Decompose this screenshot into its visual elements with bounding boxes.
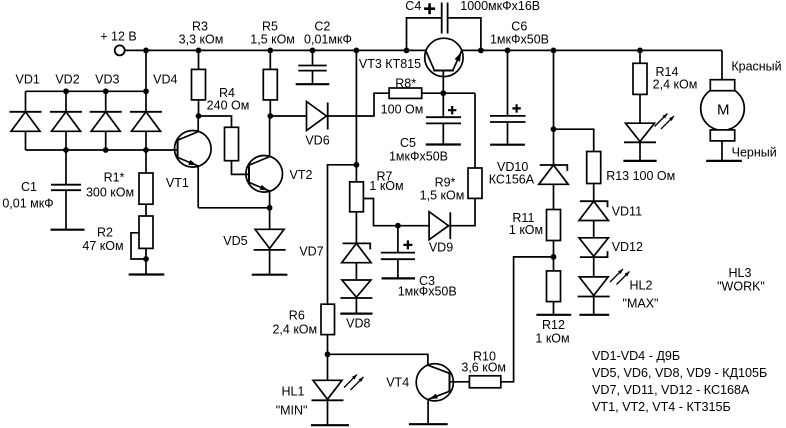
node emitters bbox=[267, 205, 273, 211]
resistor R10 bbox=[469, 376, 500, 388]
svg-text:100 Ом: 100 Ом bbox=[381, 103, 424, 117]
svg-text:VD4: VD4 bbox=[153, 72, 177, 86]
label VD9 bbox=[429, 241, 453, 255]
svg-text:VD5: VD5 bbox=[223, 234, 247, 248]
resistor R9 bbox=[450, 168, 482, 226]
svg-text:0,01мкФ: 0,01мкФ bbox=[304, 33, 352, 47]
resistor R13 bbox=[587, 152, 601, 202]
label VT1 bbox=[166, 176, 189, 190]
label R4 bbox=[207, 86, 250, 112]
svg-text:1мкФх50В: 1мкФх50В bbox=[398, 285, 457, 299]
svg-text:VD7: VD7 bbox=[299, 245, 323, 259]
svg-text:HL2: HL2 bbox=[630, 279, 653, 293]
svg-text:0,01 мкФ: 0,01 мкФ bbox=[2, 197, 53, 211]
label VD10 bbox=[489, 160, 535, 187]
svg-text:2,4 кОм: 2,4 кОм bbox=[272, 322, 317, 336]
svg-text:R3: R3 bbox=[192, 20, 208, 34]
svg-text:47 кОм: 47 кОм bbox=[82, 239, 123, 253]
svg-text:КС156А: КС156А bbox=[489, 173, 535, 187]
led HL2 bbox=[578, 269, 630, 315]
node R7 top bbox=[354, 162, 360, 168]
diode VD8 bbox=[340, 280, 372, 298]
label VD7 bbox=[299, 245, 323, 259]
wire diode top bus bbox=[26, 90, 147, 92]
resistor R11 bbox=[547, 184, 561, 257]
svg-text:VD2: VD2 bbox=[55, 72, 79, 86]
resistor R1 bbox=[139, 150, 153, 204]
wire VT1-VT2 emitters bbox=[198, 207, 269, 209]
svg-text:VD9: VD9 bbox=[429, 241, 453, 255]
svg-text:VT4: VT4 bbox=[386, 376, 409, 390]
label VD6 bbox=[305, 134, 329, 148]
svg-text:1 кОм: 1 кОм bbox=[535, 332, 569, 346]
diode VD4 bbox=[130, 91, 162, 150]
svg-text:"WORK": "WORK" bbox=[717, 280, 765, 294]
svg-text:VD8: VD8 bbox=[346, 317, 370, 331]
zener VD7 bbox=[342, 243, 371, 262]
diode VD2 bbox=[50, 91, 82, 150]
zener VD11 bbox=[579, 201, 608, 220]
svg-text:VD1: VD1 bbox=[16, 72, 40, 86]
label VD12 bbox=[612, 240, 643, 254]
label VT2 bbox=[290, 168, 313, 182]
transistor VT1 bbox=[175, 116, 212, 208]
resistor R8 bbox=[389, 88, 422, 98]
svg-text:1мкФх50В: 1мкФх50В bbox=[389, 150, 448, 164]
label R3 bbox=[179, 20, 224, 47]
label VD8 bbox=[346, 317, 370, 331]
label VT4 bbox=[386, 376, 409, 390]
svg-text:R9*: R9* bbox=[435, 176, 456, 190]
ground C2 bbox=[296, 83, 330, 85]
svg-text:1 кОм: 1 кОм bbox=[509, 223, 543, 237]
label R9 bbox=[420, 176, 465, 203]
svg-text:C6: C6 bbox=[511, 20, 527, 34]
diode VD5 bbox=[254, 208, 286, 275]
svg-text:VD7, VD11, VD12 - КС168А: VD7, VD11, VD12 - КС168А bbox=[592, 383, 750, 397]
resistor R3 bbox=[192, 50, 206, 116]
svg-text:1,5 кОм: 1,5 кОм bbox=[420, 189, 465, 203]
svg-text:+ 12 В: + 12 В bbox=[100, 30, 137, 44]
wire +12V rail right bbox=[462, 49, 722, 51]
svg-text:R12: R12 bbox=[542, 318, 565, 332]
ground R12 bbox=[536, 314, 571, 316]
svg-text:VD3: VD3 bbox=[95, 72, 119, 86]
label R12 bbox=[535, 318, 569, 346]
ground C3 bbox=[382, 277, 415, 279]
svg-text:R1*: R1* bbox=[104, 171, 125, 185]
wire VD4 drop from rail bbox=[145, 50, 147, 91]
node rail junctions bbox=[143, 48, 643, 54]
svg-text:VD6: VD6 bbox=[305, 134, 329, 148]
svg-text:C1: C1 bbox=[21, 180, 37, 194]
label R14 bbox=[653, 65, 698, 92]
resistor R2 bbox=[131, 216, 153, 275]
node top bus junctions bbox=[63, 88, 149, 94]
node C3 top bbox=[395, 223, 401, 229]
svg-text:R5: R5 bbox=[262, 20, 278, 34]
diode VD9 bbox=[429, 212, 450, 240]
wire rail-motor bbox=[721, 50, 723, 79]
capacitor C6 bbox=[490, 50, 526, 144]
transistor VT4 bbox=[416, 364, 453, 425]
label notes bbox=[592, 349, 767, 414]
wire R8-base bbox=[422, 92, 475, 94]
label C4 bbox=[405, 0, 540, 14]
svg-text:Черный: Черный bbox=[732, 146, 777, 160]
label R13 bbox=[606, 169, 675, 183]
svg-text:VD5, VD6, VD8, VD9 - КД105Б: VD5, VD6, VD8, VD9 - КД105Б bbox=[592, 366, 767, 380]
label HL2 bbox=[623, 279, 659, 311]
svg-text:VD1-VD4 - Д9Б: VD1-VD4 - Д9Б bbox=[592, 349, 680, 363]
ground HL2 bbox=[579, 314, 609, 316]
svg-text:VT3 КТ815: VT3 КТ815 bbox=[359, 57, 421, 71]
label C3 bbox=[398, 274, 457, 299]
wire VD12-HL2 bbox=[593, 257, 595, 277]
svg-text:R2: R2 bbox=[97, 226, 113, 240]
node R11-R12 bbox=[551, 254, 557, 260]
zener VD12 bbox=[579, 238, 608, 257]
svg-text:R8*: R8* bbox=[395, 77, 416, 91]
wire R10-R11 node bbox=[501, 257, 554, 382]
diode VD1 bbox=[10, 91, 42, 150]
svg-text:VT1: VT1 bbox=[166, 176, 189, 190]
ground C5 bbox=[426, 143, 461, 145]
svg-text:1 кОм: 1 кОм bbox=[369, 179, 403, 193]
ground HL3 bbox=[623, 160, 656, 162]
svg-text:2,4 кОм: 2,4 кОм bbox=[653, 78, 698, 92]
capacitor C3 bbox=[381, 226, 415, 279]
svg-text:1000мкФх16В: 1000мкФх16В bbox=[460, 0, 540, 13]
svg-text:R6: R6 bbox=[289, 309, 305, 323]
wire VD6-R8 bbox=[328, 93, 389, 116]
label VD1 bbox=[16, 72, 40, 86]
svg-text:R13 100 Ом: R13 100 Ом bbox=[606, 169, 675, 183]
label HL1 bbox=[276, 385, 308, 418]
svg-text:VD11: VD11 bbox=[612, 205, 642, 219]
svg-text:1мкФх50В: 1мкФх50В bbox=[490, 33, 549, 47]
svg-text:C5: C5 bbox=[400, 136, 416, 150]
label R8 bbox=[381, 77, 424, 117]
ground motor bbox=[706, 160, 742, 162]
diode VD3 bbox=[90, 91, 122, 150]
node HL1 top bbox=[325, 351, 331, 357]
svg-text:HL3: HL3 bbox=[729, 266, 752, 280]
node R3 bottom bbox=[196, 113, 202, 119]
wire R1-R2 bbox=[145, 204, 147, 216]
svg-text:VT2: VT2 bbox=[290, 168, 313, 182]
svg-text:VD12: VD12 bbox=[612, 240, 643, 254]
label C6 bbox=[490, 20, 549, 47]
transistor VT3 bbox=[425, 38, 463, 93]
svg-text:"MIN": "MIN" bbox=[276, 404, 308, 418]
ground VD5 bbox=[252, 274, 288, 276]
wire VD7-VD8 bbox=[355, 263, 357, 280]
wire diode bottom bus bbox=[26, 149, 178, 151]
resistor R5 bbox=[263, 50, 277, 116]
wire to R6 branch bbox=[328, 165, 357, 304]
wire node-R13 bbox=[554, 129, 594, 151]
label VD5 bbox=[223, 234, 247, 248]
svg-text:М: М bbox=[717, 101, 730, 118]
led HL1 bbox=[312, 354, 364, 425]
svg-text:Красный: Красный bbox=[731, 60, 781, 74]
ground HL1 bbox=[311, 424, 349, 426]
transistor VT2 bbox=[246, 116, 283, 208]
label VD4 bbox=[153, 72, 177, 86]
wire +12V rail left bbox=[124, 49, 426, 51]
node VT3 base bbox=[440, 90, 446, 96]
wire rail drop x356 bbox=[355, 50, 357, 164]
label C2 bbox=[304, 20, 352, 47]
wire VT4 base-R10 bbox=[450, 381, 470, 383]
label HL3 bbox=[717, 266, 765, 294]
label VT3 bbox=[359, 57, 421, 71]
wire base-R9 bbox=[474, 93, 476, 168]
node bottom bus junctions bbox=[63, 147, 149, 153]
ground C6 bbox=[490, 144, 525, 146]
label R1 bbox=[86, 171, 134, 200]
capacitor C2 bbox=[298, 50, 326, 84]
label R5 bbox=[250, 20, 295, 47]
motor M1 bbox=[701, 80, 745, 161]
node +12V terminal bbox=[100, 30, 137, 56]
svg-text:240 Ом: 240 Ом bbox=[207, 98, 250, 112]
svg-text:300 кОм: 300 кОм bbox=[86, 186, 134, 200]
zener VD10 bbox=[539, 129, 568, 184]
svg-text:3,3 кОм: 3,3 кОм bbox=[179, 33, 224, 47]
led HL3 bbox=[624, 114, 674, 161]
resistor R4 bbox=[199, 116, 251, 174]
capacitor C1 bbox=[51, 150, 81, 230]
wire VD9-node bbox=[398, 225, 429, 227]
wire R7 tap bbox=[363, 199, 398, 226]
capacitor C4 bbox=[407, 3, 481, 51]
label Черный bbox=[732, 146, 777, 160]
resistor R12 bbox=[547, 257, 561, 315]
label VD2 bbox=[55, 72, 79, 86]
wire VD11-VD12 bbox=[593, 221, 595, 238]
label R6 bbox=[272, 309, 317, 337]
resistor R6 bbox=[321, 304, 335, 354]
node R5 bottom bbox=[267, 113, 273, 119]
resistor R7 bbox=[350, 165, 364, 244]
svg-text:1,5 кОм: 1,5 кОм bbox=[250, 33, 295, 47]
label VD11 bbox=[612, 205, 642, 219]
label R10 bbox=[461, 350, 506, 375]
label R11 bbox=[509, 211, 543, 237]
svg-text:C4: C4 bbox=[405, 0, 421, 13]
label R7 bbox=[369, 170, 403, 194]
ground C1 bbox=[51, 229, 85, 231]
ground R2 bbox=[129, 273, 165, 275]
label C5 bbox=[389, 136, 448, 164]
wire rail drop x553 bbox=[553, 50, 555, 129]
ground VT4 bbox=[409, 423, 448, 425]
label VD3 bbox=[95, 72, 119, 86]
svg-text:VT1, VT2, VT4 - КТ315Б: VT1, VT2, VT4 - КТ315Б bbox=[592, 400, 731, 414]
label R2 bbox=[82, 226, 123, 254]
wire R5-VD6 bbox=[270, 115, 306, 117]
wire HL1-VT4 bbox=[328, 354, 428, 365]
ground VD8 bbox=[340, 313, 372, 315]
wire VD8-gnd bbox=[355, 298, 357, 314]
svg-text:"MAX": "MAX" bbox=[623, 297, 659, 311]
label C1 bbox=[2, 180, 53, 211]
label Красный bbox=[731, 60, 781, 74]
node x553 bbox=[551, 126, 557, 132]
capacitor C5 bbox=[426, 93, 461, 144]
resistor R14 bbox=[633, 50, 647, 123]
svg-text:C2: C2 bbox=[314, 20, 330, 34]
svg-text:HL1: HL1 bbox=[282, 385, 305, 399]
diode VD6 bbox=[307, 102, 328, 131]
svg-text:3,6 кОм: 3,6 кОм bbox=[461, 361, 506, 375]
